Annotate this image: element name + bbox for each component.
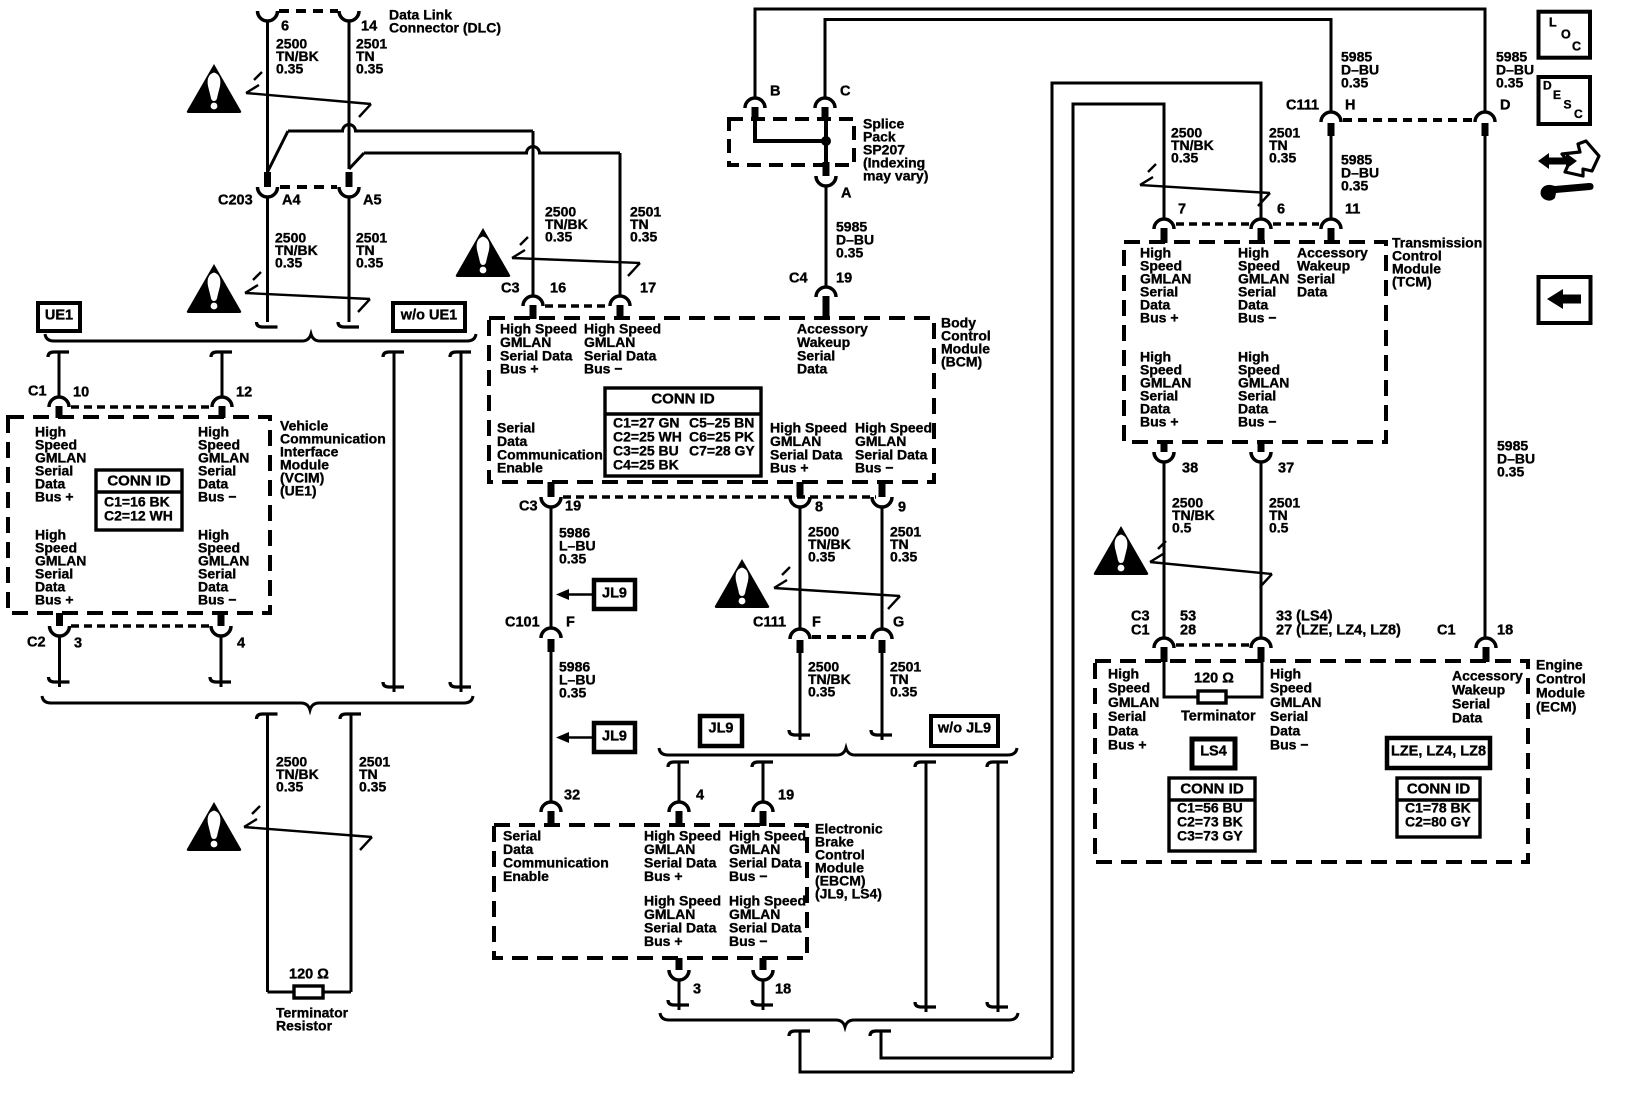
svg-text:Bus +: Bus + <box>35 592 74 608</box>
connector C101 stub <box>548 639 555 652</box>
wire 2500 C111 F to JL9 brace <box>799 653 802 740</box>
connector TCM bottom pin 38 <box>1161 442 1168 452</box>
connector VCIM C2 pin 3 <box>56 613 63 626</box>
svg-text:O: O <box>1561 28 1571 42</box>
svg-text:4: 4 <box>237 636 245 652</box>
module EBCM dashed box <box>494 825 807 958</box>
svg-text:37: 37 <box>1278 461 1294 477</box>
option arrow JL9 upper <box>567 593 594 596</box>
svg-text:Bus +: Bus + <box>644 933 683 949</box>
svg-text:D: D <box>1500 98 1510 114</box>
module BCM dashed box <box>489 318 934 482</box>
warning triangle note 1 <box>187 64 242 113</box>
svg-text:9: 9 <box>898 500 906 516</box>
brace joining VCIM / w-o UE1 to terminator <box>42 696 473 710</box>
svg-text:Bus −: Bus − <box>1238 414 1277 430</box>
svg-text:14: 14 <box>361 19 377 35</box>
connector EBCM bottom pin 3 <box>676 958 683 970</box>
connector C111 F cup <box>790 629 810 639</box>
connector TCM pin 6 <box>1251 219 1271 229</box>
connector DLC pin 6 terminal <box>258 11 278 21</box>
svg-text:0.35: 0.35 <box>356 255 383 271</box>
svg-text:0.35: 0.35 <box>276 61 303 77</box>
splice SP207 junction dot <box>821 136 831 146</box>
option box JL9 upper <box>594 580 635 609</box>
wire 2501 TCM 37 to ECM <box>1260 462 1263 637</box>
svg-text:D: D <box>1543 79 1552 93</box>
svg-text:12: 12 <box>236 385 252 401</box>
svg-text:(ECM): (ECM) <box>1536 699 1576 715</box>
wire EBCM pin 4 drop <box>668 762 689 767</box>
svg-text:Bus +: Bus + <box>644 868 683 884</box>
note arrow 3 crossing terminator wires <box>244 827 372 837</box>
module TCM dashed box <box>1124 242 1386 442</box>
table BCM CONN ID <box>605 388 761 476</box>
connector SP207 B stub <box>752 107 759 120</box>
svg-text:16: 16 <box>550 281 566 297</box>
wire 2501 A5 down to brace <box>348 197 351 322</box>
svg-text:0.35: 0.35 <box>890 684 917 700</box>
wire 2500 TCM 38 to ECM <box>1163 462 1166 637</box>
wire w/o JL9 bypass left <box>915 762 936 767</box>
svg-text:C3: C3 <box>519 499 538 515</box>
wire 2500 BCM 8 to C111 F <box>799 507 802 629</box>
wire w/o JL9 bypass right <box>987 762 1008 767</box>
connector TCM bottom pin 37 <box>1258 442 1265 452</box>
svg-text:(BCM): (BCM) <box>941 354 982 370</box>
connector C111 F stub <box>797 640 804 653</box>
svg-text:F: F <box>812 615 821 631</box>
svg-text:Bus +: Bus + <box>1140 310 1179 326</box>
connector ECM pin 53/28 <box>1154 638 1174 648</box>
wire 2501 to terminator <box>340 714 361 719</box>
connector DLC pin 14 terminal <box>339 11 359 21</box>
connector C203 dashed link <box>280 185 337 189</box>
svg-text:Resistor: Resistor <box>276 1018 333 1034</box>
svg-text:Bus −: Bus − <box>729 868 768 884</box>
connector VCIM C2 pin 4 <box>218 613 225 626</box>
svg-text:C111: C111 <box>753 615 786 631</box>
connector C203 A5 female cup <box>339 187 359 197</box>
svg-text:0.35: 0.35 <box>559 551 586 567</box>
svg-text:C2=80 GY: C2=80 GY <box>1405 814 1471 830</box>
svg-text:0.35: 0.35 <box>359 779 386 795</box>
wire 2500 TN/BK DLC pin 6 down to C203 A4 <box>266 21 269 174</box>
connector EBCM pin 32 <box>541 802 561 812</box>
svg-text:19: 19 <box>565 499 581 515</box>
connector VCIM C1 pin dashed row <box>71 405 210 409</box>
wire branch 2501 diagonal to horizontal run y=152 <box>349 153 364 169</box>
svg-text:Enable: Enable <box>497 460 543 476</box>
connector C111 D cup <box>1475 112 1495 122</box>
svg-text:0.35: 0.35 <box>890 549 917 565</box>
connector EBCM pin 19 <box>753 802 773 812</box>
svg-text:Enable: Enable <box>503 868 549 884</box>
svg-text:Bus −: Bus − <box>198 592 237 608</box>
wire 2500 to terminator <box>257 714 278 719</box>
svg-text:A5: A5 <box>363 193 382 209</box>
svg-text:CONN ID: CONN ID <box>1407 781 1471 798</box>
connector TCM pin 11 <box>1321 219 1341 229</box>
connector TCM pin dashed row <box>1176 222 1249 226</box>
svg-text:C111: C111 <box>1286 98 1319 114</box>
wire 5986 L-BU C101 to EBCM 32 <box>550 652 553 802</box>
svg-text:120 Ω: 120 Ω <box>1194 671 1234 687</box>
svg-text:120 Ω: 120 Ω <box>289 967 329 983</box>
svg-text:E: E <box>1553 88 1561 102</box>
svg-text:C4: C4 <box>789 271 808 287</box>
svg-text:0.35: 0.35 <box>1269 150 1296 166</box>
icon box DESC <box>1539 77 1591 124</box>
svg-text:F: F <box>566 615 575 631</box>
wire 2500 horizontal run to BCM pin 16 with hop over 2501 <box>288 125 533 132</box>
svg-text:3: 3 <box>693 982 701 998</box>
connector C111 D stub <box>1482 123 1489 136</box>
connector C111 H stub <box>1328 123 1335 136</box>
connector VCIM C1 pin 12 <box>212 397 232 407</box>
svg-text:0.35: 0.35 <box>1341 178 1368 194</box>
svg-text:11: 11 <box>1345 202 1360 218</box>
module ECM dashed box <box>1095 661 1528 862</box>
connector BCM C3 pin dashed row <box>545 304 608 308</box>
svg-text:Bus −: Bus − <box>1270 737 1309 753</box>
wire 5985 D-BU C111 H to TCM 11 <box>1330 136 1333 219</box>
svg-text:0.35: 0.35 <box>356 61 383 77</box>
wire w/o UE1 bypass left <box>383 352 404 357</box>
connector DLC dashed link <box>279 9 338 13</box>
svg-text:C101: C101 <box>505 615 540 631</box>
note arrow 5 crossing 8/9 wires <box>774 588 900 596</box>
svg-text:0.35: 0.35 <box>559 685 586 701</box>
note arrow 4 crossing BCM C3 wires <box>512 258 640 263</box>
svg-text:G: G <box>893 615 904 631</box>
wire 2501 BCM 9 to C111 G <box>881 507 884 629</box>
wire 2501 C111 G to JL9 brace <box>881 653 884 740</box>
svg-text:Bus +: Bus + <box>35 489 74 505</box>
connector SP207 A cup <box>816 176 836 186</box>
svg-text:8: 8 <box>815 500 823 516</box>
svg-text:3: 3 <box>74 636 82 652</box>
svg-text:CONN ID: CONN ID <box>1180 781 1244 798</box>
svg-text:17: 17 <box>640 281 656 297</box>
svg-text:LS4: LS4 <box>1200 744 1227 760</box>
icon box back arrow <box>1539 277 1591 323</box>
svg-text:C7=28 GY: C7=28 GY <box>689 443 755 459</box>
svg-text:(JL9, LS4): (JL9, LS4) <box>815 886 882 902</box>
brace EBCM / w-o JL9 to ECM-TCM bus <box>660 1013 1018 1027</box>
svg-text:C2=12 WH: C2=12 WH <box>104 508 173 524</box>
svg-text:0.35: 0.35 <box>1171 150 1198 166</box>
svg-text:CONN ID: CONN ID <box>651 391 715 408</box>
svg-text:C2: C2 <box>27 635 46 651</box>
wire 5985 D-BU C111 D to ECM C1 18 <box>1484 136 1487 637</box>
wire 2500 vertical down to BCM C3 pin 16 <box>532 131 535 296</box>
svg-text:28: 28 <box>1180 623 1196 639</box>
table VCIM CONN ID <box>96 470 182 530</box>
connector BCM C3 pin 16 <box>523 296 543 306</box>
svg-text:0.35: 0.35 <box>275 255 302 271</box>
svg-text:18: 18 <box>775 982 791 998</box>
note arrow 2 crossing A4/A5 wires <box>245 293 370 299</box>
connector SP207 C stub <box>822 107 829 120</box>
note arrow 6 crossing TCM feed wires <box>1140 185 1270 193</box>
connector BCM bottom pin 8 <box>797 482 804 497</box>
svg-text:S: S <box>1564 98 1572 112</box>
svg-text:C1: C1 <box>1131 623 1150 639</box>
option box LZE LZ4 LZ8 <box>1387 738 1490 768</box>
note arrow 7 crossing TCM-ECM wires <box>1150 562 1272 574</box>
svg-text:Bus +: Bus + <box>1108 737 1147 753</box>
table ECM LZE CONN ID <box>1397 778 1480 837</box>
svg-text:0.35: 0.35 <box>630 229 657 245</box>
svg-text:C203: C203 <box>218 193 253 209</box>
connector SP207 A stub <box>823 162 830 176</box>
connector C203 A4 female cup <box>258 187 278 197</box>
svg-text:18: 18 <box>1497 623 1513 639</box>
svg-text:C1: C1 <box>28 384 47 400</box>
connector BCM C3 pin 17 <box>610 296 630 306</box>
option box w/o JL9 <box>931 716 998 746</box>
connector BCM bottom pin dashed row <box>563 495 876 499</box>
module VCIM dashed box <box>8 417 270 613</box>
wire branch 2500 diagonal to horizontal run y=130 <box>268 131 289 172</box>
option box w/o UE1 <box>393 303 465 331</box>
svg-text:JL9: JL9 <box>602 729 627 745</box>
wire EBCM pin 3 to brace <box>678 980 681 1010</box>
wire VCIM pin 3 to brace <box>58 636 61 687</box>
connector VCIM C1 pin 10 <box>49 397 69 407</box>
wire 2501 vertical down to BCM C3 pin 17 <box>619 153 622 296</box>
svg-text:4: 4 <box>696 788 704 804</box>
svg-text:6: 6 <box>281 19 289 35</box>
svg-text:Bus −: Bus − <box>855 460 894 476</box>
connector ECM pin dashed row <box>1176 643 1249 647</box>
svg-text:0.35: 0.35 <box>545 229 572 245</box>
connector C203 A5 male stub <box>346 172 353 187</box>
svg-text:0.35: 0.35 <box>808 684 835 700</box>
svg-text:0.35: 0.35 <box>836 245 863 261</box>
wire 2500 A4 down to brace <box>266 197 269 322</box>
connector VCIM C2 pin dashed row <box>71 624 209 628</box>
connector SP207 C cup <box>815 98 835 108</box>
option box LS4 <box>1192 739 1235 768</box>
svg-text:Terminator: Terminator <box>1181 709 1256 725</box>
wire ECM terminator right <box>1226 662 1262 697</box>
svg-text:7: 7 <box>1178 202 1186 218</box>
svg-text:JL9: JL9 <box>709 721 734 737</box>
svg-text:Data: Data <box>1297 284 1328 300</box>
wire 2501 horizontal run to BCM pin 17 with hop over 2500 vertical <box>364 147 620 154</box>
warning triangle note 3 <box>187 802 242 851</box>
svg-text:Bus −: Bus − <box>1238 310 1277 326</box>
note arrow 1 crossing 2500/2501 <box>246 93 371 104</box>
splice pack SP207 dashed box <box>729 119 854 165</box>
connector ECM pin 33/27 <box>1251 638 1271 648</box>
wire 5985 D-BU SP207 A to BCM C4 19 <box>825 186 828 287</box>
wire VCIM pin 4 to brace <box>220 636 223 687</box>
svg-text:C3: C3 <box>501 281 520 297</box>
svg-text:0.35: 0.35 <box>1341 75 1368 91</box>
svg-text:(UE1): (UE1) <box>280 483 317 499</box>
svg-text:w/o JL9: w/o JL9 <box>937 721 991 737</box>
svg-text:Data: Data <box>1452 710 1483 726</box>
connector C111 H cup <box>1321 112 1341 122</box>
splice SP207 internal bus <box>755 119 826 141</box>
icon swap arrow with wrench <box>1538 153 1577 169</box>
svg-text:may vary): may vary) <box>863 168 928 184</box>
svg-text:A4: A4 <box>282 193 301 209</box>
connector TCM pin 7 <box>1154 219 1174 229</box>
wire bottom bus right riser <box>870 1031 891 1036</box>
svg-text:Bus −: Bus − <box>198 489 237 505</box>
option box UE1 <box>38 303 80 331</box>
svg-text:C4=25 BK: C4=25 BK <box>613 457 679 473</box>
wire EBCM pin 18 to brace <box>762 980 765 1010</box>
wire ECM terminator left <box>1164 662 1198 697</box>
svg-text:Bus −: Bus − <box>584 361 623 377</box>
connector C111 F-G dashed row <box>812 635 870 639</box>
option box JL9 lower <box>594 723 635 752</box>
option box JL9 mid <box>700 716 742 746</box>
connector EBCM bottom pin 18 <box>760 958 767 970</box>
warning triangle note 4 <box>456 228 511 277</box>
connector BCM bottom pin 19 (C3) <box>548 482 555 497</box>
warning triangle note 6 <box>1094 526 1149 575</box>
table ECM LS4 CONN ID <box>1169 778 1255 851</box>
brace JL9 / w-o JL9 alternatives <box>659 748 1017 755</box>
svg-text:38: 38 <box>1182 461 1198 477</box>
connector C111 G stub <box>879 640 886 653</box>
svg-text:H: H <box>1345 98 1355 114</box>
svg-text:CONN ID: CONN ID <box>107 473 171 490</box>
svg-text:0.5: 0.5 <box>1172 520 1192 536</box>
warning triangle note 2 <box>187 264 242 313</box>
svg-text:LZE, LZ4, LZ8: LZE, LZ4, LZ8 <box>1391 744 1486 760</box>
option arrow JL9 lower <box>567 736 594 739</box>
svg-text:A: A <box>841 186 852 202</box>
wire VCIM pin 12 drop <box>211 352 232 357</box>
connector BCM C4 pin 19 <box>816 287 836 297</box>
connector SP207 B cup <box>745 98 765 108</box>
svg-text:C3=73 GY: C3=73 GY <box>1177 828 1243 844</box>
connector BCM bottom pin 9 <box>879 482 886 497</box>
svg-text:JL9: JL9 <box>602 586 627 602</box>
svg-text:C: C <box>1572 40 1581 54</box>
svg-text:C: C <box>840 84 851 100</box>
svg-text:L: L <box>1549 16 1557 30</box>
connector C101 cup <box>541 628 561 638</box>
svg-text:0.35: 0.35 <box>808 549 835 565</box>
svg-text:w/o UE1: w/o UE1 <box>400 308 457 324</box>
svg-text:(TCM): (TCM) <box>1392 274 1432 290</box>
svg-text:UE1: UE1 <box>45 308 73 324</box>
svg-text:0.35: 0.35 <box>1497 464 1524 480</box>
connector EBCM pin 4 <box>669 802 689 812</box>
svg-text:C: C <box>1574 107 1583 121</box>
connector ECM pin C1 18 <box>1476 638 1496 648</box>
wire VCIM pin 10 drop <box>48 352 69 357</box>
svg-text:C1: C1 <box>1437 623 1456 639</box>
wire w/o JL9 riser to TCM pin 6 (2501) <box>1052 83 1261 1058</box>
warning triangle note 5 <box>715 559 770 608</box>
resistor 120 ohm terminator <box>294 986 323 998</box>
connector C203 A4 male stub <box>264 172 271 187</box>
wire 2501 TN DLC pin 14 down to C203 A5 <box>348 21 351 169</box>
connector C111 H-D dashed row <box>1343 118 1473 122</box>
svg-text:Bus +: Bus + <box>1140 414 1179 430</box>
connector C111 G cup <box>872 629 892 639</box>
wire 5986 L-BU BCM 19 to C101 <box>550 507 553 628</box>
svg-text:Bus −: Bus − <box>729 933 768 949</box>
brace splitting UE1 / w-o UE1 alternatives <box>45 334 476 341</box>
svg-text:Data: Data <box>797 361 828 377</box>
svg-text:Bus +: Bus + <box>770 460 809 476</box>
svg-text:27 (LZE, LZ4, LZ8): 27 (LZE, LZ4, LZ8) <box>1276 623 1401 639</box>
svg-text:32: 32 <box>564 788 580 804</box>
wire w/o UE1 bypass right <box>450 352 471 357</box>
wire run C: horizontal y=19.5 to C111 H <box>825 20 1331 113</box>
wire terminator resistor horizontal <box>268 991 295 994</box>
svg-text:B: B <box>770 84 780 100</box>
svg-text:10: 10 <box>73 385 89 401</box>
svg-text:Bus +: Bus + <box>500 361 539 377</box>
wire run B: top horizontal y=9 to D <box>755 9 1485 112</box>
svg-text:0.35: 0.35 <box>1496 75 1523 91</box>
wire w/o JL9 riser to TCM pin 7 (2500) <box>1073 104 1164 1072</box>
resistor 120 ohm ECM terminator <box>1198 691 1226 703</box>
svg-text:Connector (DLC): Connector (DLC) <box>389 20 501 36</box>
svg-text:19: 19 <box>836 271 852 287</box>
svg-text:6: 6 <box>1277 202 1285 218</box>
wire bottom bus left riser <box>789 1031 810 1036</box>
svg-text:0.35: 0.35 <box>276 779 303 795</box>
svg-text:19: 19 <box>778 788 794 804</box>
svg-text:0.5: 0.5 <box>1269 520 1289 536</box>
wire EBCM pin 19 drop <box>752 762 773 767</box>
icon box LOC <box>1539 12 1591 58</box>
